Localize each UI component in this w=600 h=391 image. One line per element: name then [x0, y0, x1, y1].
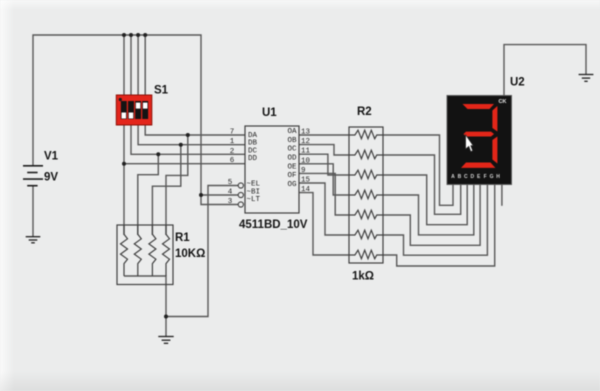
wire V+ rail from battery top to control-pin drop — [33, 35, 238, 205]
node rail junction 2 — [129, 33, 133, 37]
svg-text:V1: V1 — [44, 151, 59, 163]
segment D — [461, 163, 495, 168]
svg-text:4: 4 — [228, 189, 233, 197]
segment B — [492, 106, 497, 132]
svg-text:10KΩ: 10KΩ — [175, 248, 205, 260]
svg-text:OD: OD — [287, 155, 297, 163]
display pin letters — [451, 174, 500, 180]
svg-text:OE: OE — [287, 163, 297, 171]
svg-text:4511BD_10V: 4511BD_10V — [239, 219, 308, 231]
resistor pack R1 — [117, 225, 173, 285]
node DA junction — [186, 133, 190, 137]
svg-text:12: 12 — [301, 138, 310, 146]
pin numbers U1 left — [228, 129, 235, 207]
wire DA branch to R1 res4 — [166, 135, 188, 235]
wire U1 OC to R2 row3 — [299, 154, 349, 175]
svg-text:2: 2 — [230, 148, 235, 156]
wire U1 OB to R2 row2 — [299, 145, 349, 155]
pin names U1 left — [247, 132, 261, 204]
svg-text:CK: CK — [499, 99, 507, 105]
wire DC branch to R1 res2 — [138, 154, 159, 235]
node ~BI junction — [199, 193, 203, 197]
node DC junction — [156, 152, 160, 156]
switch S1 — [116, 95, 152, 125]
svg-text:OF: OF — [287, 172, 296, 180]
svg-text:A: A — [451, 174, 455, 180]
wire R2 row4 to display pin D — [383, 185, 474, 235]
wire R2 row7 to display pin G — [383, 185, 495, 266]
svg-text:OG: OG — [287, 181, 297, 189]
wire U1 OA to R2 row1 — [299, 134, 349, 136]
op IC U1 — [238, 126, 299, 213]
node DD junction — [122, 162, 126, 166]
svg-text:9: 9 — [301, 167, 306, 175]
svg-text:DD: DD — [248, 155, 258, 163]
svg-text:5: 5 — [228, 179, 233, 187]
svg-text:U1: U1 — [262, 107, 277, 119]
segment A — [463, 104, 495, 109]
svg-text:9V: 9V — [44, 172, 58, 184]
pin numbers U1 right — [301, 129, 311, 195]
svg-text:10: 10 — [301, 157, 311, 165]
svg-text:7: 7 — [230, 129, 235, 137]
svg-text:B: B — [458, 174, 462, 180]
wire R2 row3 to display pin C — [383, 175, 467, 225]
wire R1 bottom bus to ground node — [124, 276, 166, 337]
wire switch line 2 (to DC) — [131, 35, 245, 154]
node rail junction 1 — [122, 33, 126, 37]
svg-text:~LT: ~LT — [247, 196, 261, 204]
svg-text:6: 6 — [230, 157, 235, 165]
svg-text:R1: R1 — [175, 232, 190, 244]
svg-text:13: 13 — [301, 129, 311, 137]
svg-text:OC: OC — [287, 146, 297, 154]
segment G — [464, 132, 495, 137]
wire ~BI branch — [201, 194, 238, 196]
wire switch line 3 (to DB) — [138, 35, 245, 145]
svg-text:F: F — [484, 174, 487, 180]
wire U1 OG to R2 row7 — [299, 193, 349, 255]
svg-text:R2: R2 — [357, 106, 372, 118]
svg-text:U2: U2 — [510, 77, 525, 89]
pin names U1 right — [287, 128, 297, 189]
mouse cursor — [466, 135, 474, 152]
svg-text:11: 11 — [301, 148, 311, 156]
wire battery minus to ground — [32, 186, 34, 237]
battery V1 — [23, 166, 43, 186]
svg-text:14: 14 — [301, 186, 311, 194]
wire R2 row1 to display pin A — [383, 135, 453, 205]
ground (battery) — [26, 237, 41, 243]
wire switch line 4 (to DA) — [145, 35, 245, 135]
svg-text:D: D — [470, 174, 474, 180]
node rail junction 4 — [143, 33, 147, 37]
segment C — [492, 137, 497, 164]
display U2 — [447, 96, 512, 185]
svg-text:1: 1 — [230, 138, 235, 146]
wire display pin H stub — [501, 185, 503, 206]
svg-text:C: C — [464, 174, 468, 180]
svg-text:1kΩ: 1kΩ — [352, 271, 374, 283]
resistor pack R2 — [349, 127, 383, 263]
wire DB branch to R1 res3 — [152, 145, 180, 235]
svg-text:OB: OB — [287, 137, 297, 145]
svg-text:S1: S1 — [154, 85, 169, 97]
wire display CK to ground — [504, 45, 586, 96]
wire U1 OF to R2 row6 — [299, 183, 349, 235]
node DB junction — [179, 143, 183, 147]
svg-text:G: G — [490, 174, 494, 180]
node rail junction 3 — [136, 33, 140, 37]
svg-text:OA: OA — [287, 128, 297, 136]
svg-text:15: 15 — [301, 177, 311, 185]
wire switch line 1 (to DD and R1 res1) — [124, 35, 245, 235]
svg-text:H: H — [496, 174, 500, 180]
node ground junction — [164, 315, 168, 319]
wire R2 row5 to display pin E — [383, 185, 480, 245]
wire U1 OE to R2 row5 — [299, 173, 349, 215]
wire U1 OD to R2 row4 — [299, 164, 349, 195]
svg-text:3: 3 — [228, 198, 233, 206]
wire R2 row6 to display pin F — [383, 185, 487, 255]
wire R2 row2 to display pin B — [383, 155, 461, 214]
wire ground node to ~EL pin — [166, 186, 238, 317]
ground (display net) — [579, 75, 594, 82]
ground (R1 net) — [158, 337, 173, 344]
